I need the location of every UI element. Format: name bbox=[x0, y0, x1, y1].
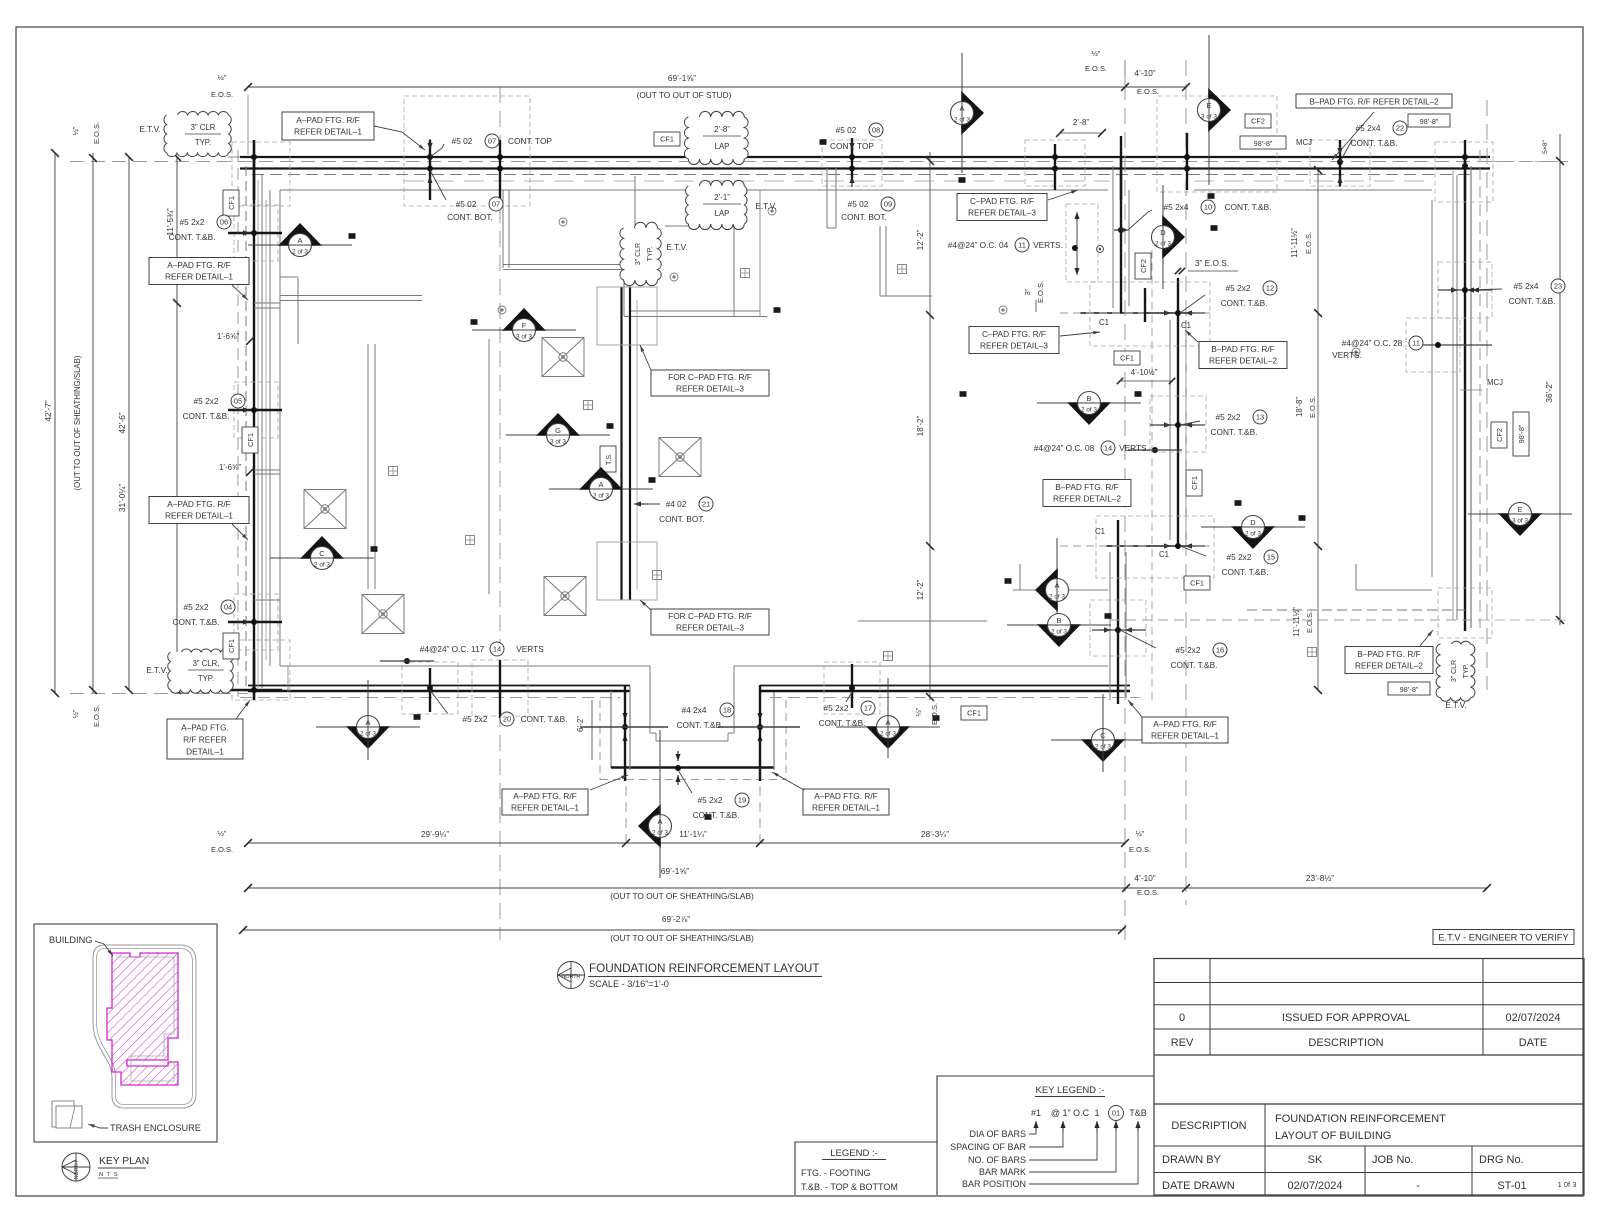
svg-text:19: 19 bbox=[738, 796, 746, 805]
svg-text:A–PAD FTG.: A–PAD FTG. bbox=[181, 723, 229, 733]
svg-text:36’-2”: 36’-2” bbox=[1544, 381, 1554, 402]
footing zone top mid bbox=[1025, 140, 1085, 186]
svg-text:E.T.V.: E.T.V. bbox=[139, 124, 160, 134]
svg-text:F: F bbox=[522, 321, 527, 330]
svg-text:07: 07 bbox=[492, 200, 500, 209]
svg-text:CONT. TOP: CONT. TOP bbox=[508, 136, 552, 146]
legend frame bbox=[795, 1142, 937, 1195]
svg-text:3” CLR,: 3” CLR, bbox=[193, 659, 220, 668]
svg-text:20: 20 bbox=[503, 715, 511, 724]
footing zone bottom 17 bbox=[824, 662, 880, 714]
label A-PAD top-left bbox=[282, 112, 374, 140]
svg-text:D: D bbox=[1250, 518, 1256, 527]
svg-text:½”: ½” bbox=[1136, 829, 1145, 838]
svg-text:CONT. T.&B.: CONT. T.&B. bbox=[1509, 296, 1556, 306]
svg-text:REFER DETAIL–2: REFER DETAIL–2 bbox=[1355, 661, 1423, 671]
svg-text:E.O.S.: E.O.S. bbox=[92, 705, 101, 727]
svg-text:DRG No.: DRG No. bbox=[1479, 1154, 1524, 1166]
cloud 2-1 LAP bbox=[686, 180, 747, 229]
svg-text:CONT. T.&B.: CONT. T.&B. bbox=[1222, 567, 1269, 577]
svg-text:DATE DRAWN: DATE DRAWN bbox=[1162, 1180, 1235, 1192]
98-8 box top bbox=[1240, 136, 1286, 149]
svg-text:3” E.O.S.: 3” E.O.S. bbox=[1195, 258, 1229, 268]
footing zone top 08 bbox=[822, 140, 882, 186]
svg-text:CF1: CF1 bbox=[1190, 579, 1204, 588]
98-8 box right rotated bbox=[1513, 412, 1529, 456]
svg-text:T.&B. - TOP & BOTTOM: T.&B. - TOP & BOTTOM bbox=[801, 1182, 898, 1192]
svg-text:5×8”: 5×8” bbox=[1542, 139, 1549, 154]
svg-text:R/F REFER: R/F REFER bbox=[183, 734, 227, 744]
footing zone spine C1 upper bbox=[1090, 282, 1210, 346]
svg-text:N T S: N T S bbox=[99, 1172, 119, 1178]
dashed across bottom-left bbox=[70, 693, 248, 695]
grid line EOS x=500 bbox=[499, 87, 501, 940]
svg-text:#5 2x2: #5 2x2 bbox=[1216, 412, 1241, 422]
svg-text:02/07/2024: 02/07/2024 bbox=[1505, 1012, 1560, 1024]
svg-text:E.T.V.: E.T.V. bbox=[666, 242, 687, 252]
svg-text:#4 02: #4 02 bbox=[666, 499, 687, 509]
svg-text:#5 2x2: #5 2x2 bbox=[180, 217, 205, 227]
svg-text:A: A bbox=[598, 480, 603, 489]
svg-text:E.O.S.: E.O.S. bbox=[1137, 888, 1159, 897]
section marker A right-wing bbox=[1035, 538, 1069, 642]
svg-text:1’-6⅝”: 1’-6⅝” bbox=[219, 463, 242, 472]
svg-text:CONT. T.&B.: CONT. T.&B. bbox=[819, 718, 866, 728]
key plan building gray inner bbox=[116, 957, 174, 1081]
section marker A top bbox=[951, 53, 985, 173]
svg-text:A–PAD FTG. R/F: A–PAD FTG. R/F bbox=[513, 791, 576, 801]
svg-text:4’-10”: 4’-10” bbox=[1134, 68, 1155, 78]
label A-PAD left 2 bbox=[149, 497, 249, 524]
svg-text:#4@24” O.C. 08: #4@24” O.C. 08 bbox=[1034, 443, 1095, 453]
bottom dim line row2 bbox=[248, 887, 1487, 889]
svg-text:CONT. T.&B.: CONT. T.&B. bbox=[183, 411, 230, 421]
svg-text:CF1: CF1 bbox=[1120, 354, 1134, 363]
bottom dim line row1 bbox=[248, 842, 1125, 844]
footing zone spine C1 lower bbox=[1096, 516, 1214, 578]
svg-text:04: 04 bbox=[224, 603, 232, 612]
svg-text:REFER DETAIL–1: REFER DETAIL–1 bbox=[165, 272, 233, 282]
svg-text:VERTS.: VERTS. bbox=[1332, 350, 1362, 360]
CF1 box spine2 bbox=[1186, 470, 1202, 496]
svg-text:CONT. BOT.: CONT. BOT. bbox=[841, 212, 887, 222]
svg-text:A: A bbox=[1054, 581, 1059, 590]
svg-text:A–PAD FTG. R/F: A–PAD FTG. R/F bbox=[167, 260, 230, 270]
svg-text:23: 23 bbox=[1554, 282, 1562, 291]
svg-text:3 of 3: 3 of 3 bbox=[1512, 518, 1528, 525]
svg-text:#5 2x2: #5 2x2 bbox=[1226, 283, 1251, 293]
svg-text:3 of 3: 3 of 3 bbox=[516, 334, 532, 341]
svg-text:3”: 3” bbox=[1023, 288, 1032, 295]
pad footing F3 bbox=[544, 577, 586, 616]
svg-text:NORTH: NORTH bbox=[74, 1161, 80, 1180]
svg-text:31’-0¼”: 31’-0¼” bbox=[117, 484, 127, 512]
svg-text:T&B: T&B bbox=[1129, 1108, 1147, 1118]
svg-text:½”: ½” bbox=[71, 709, 80, 718]
svg-text:LEGEND :-: LEGEND :- bbox=[830, 1148, 878, 1159]
svg-text:FOUNDATION REINFORCEMENT LAYOU: FOUNDATION REINFORCEMENT LAYOUT bbox=[589, 962, 820, 975]
section marker D lower bbox=[1201, 516, 1305, 550]
svg-text:NO. OF BARS: NO. OF BARS bbox=[968, 1155, 1026, 1165]
svg-text:DETAIL–1: DETAIL–1 bbox=[186, 746, 224, 756]
svg-text:REFER DETAIL–3: REFER DETAIL–3 bbox=[980, 341, 1048, 351]
dashed zone x=1077 bbox=[1066, 204, 1098, 282]
svg-text:CONT. BOT.: CONT. BOT. bbox=[447, 212, 493, 222]
footing zone left 05 bbox=[234, 382, 278, 438]
svg-text:69’-1⅝”: 69’-1⅝” bbox=[668, 73, 696, 83]
svg-text:TYP.: TYP. bbox=[195, 138, 211, 147]
svg-text:B: B bbox=[1086, 394, 1091, 403]
svg-text:E: E bbox=[1206, 101, 1211, 110]
svg-text:CF2: CF2 bbox=[1495, 428, 1504, 442]
svg-text:11’-11½”: 11’-11½” bbox=[1290, 228, 1299, 258]
left dim line 11-5 bbox=[176, 157, 178, 690]
svg-text:07: 07 bbox=[488, 137, 496, 146]
bolt symbol bbox=[1352, 348, 1360, 356]
svg-text:98’-8”: 98’-8” bbox=[1517, 424, 1526, 443]
svg-text:½”: ½” bbox=[914, 707, 923, 716]
svg-text:11’-11½”: 11’-11½” bbox=[1292, 607, 1301, 637]
svg-text:2 of 3: 2 of 3 bbox=[593, 493, 609, 500]
CF1 box left2 bbox=[242, 427, 258, 453]
anchor symbol bbox=[1308, 648, 1317, 657]
anchor symbol bbox=[741, 269, 750, 278]
svg-text:42’-6”: 42’-6” bbox=[117, 412, 127, 433]
svg-text:2 of 3: 2 of 3 bbox=[652, 830, 668, 837]
svg-text:#4@24” O.C. 28: #4@24” O.C. 28 bbox=[1342, 338, 1403, 348]
svg-text:CONT. T.&B.: CONT. T.&B. bbox=[169, 232, 216, 242]
footing zone top 22 bbox=[1310, 140, 1370, 186]
svg-text:11: 11 bbox=[1018, 241, 1026, 250]
CF2 box right bbox=[1491, 422, 1507, 448]
grid line x=1125 bbox=[1124, 60, 1126, 940]
interior long strips bbox=[367, 344, 369, 589]
footing zone corner BL bbox=[232, 640, 290, 700]
section marker E top bbox=[1198, 35, 1232, 185]
svg-text:CONT. T.&B.: CONT. T.&B. bbox=[1211, 427, 1258, 437]
svg-text:C–PAD FTG. R/F: C–PAD FTG. R/F bbox=[970, 196, 1034, 206]
footing zone corner TL bbox=[232, 142, 290, 206]
svg-text:E.O.S.: E.O.S. bbox=[1036, 281, 1045, 303]
svg-text:1’-6⅝”: 1’-6⅝” bbox=[217, 332, 240, 341]
footing zone top-left corner bbox=[404, 96, 530, 206]
label B-PAD left bbox=[1043, 480, 1131, 507]
svg-text:18: 18 bbox=[723, 706, 731, 715]
key plan site outline bbox=[93, 945, 196, 1108]
footing zone left 06 bbox=[234, 205, 278, 261]
svg-text:REFER DETAIL–2: REFER DETAIL–2 bbox=[1053, 494, 1121, 504]
cloud 3in CLR right bbox=[1436, 641, 1475, 701]
bolt symbol bbox=[559, 218, 567, 226]
top exterior wall bbox=[240, 156, 1490, 158]
label A-PAD notch right bbox=[803, 789, 889, 815]
svg-text:E.O.S.: E.O.S. bbox=[1308, 396, 1317, 418]
svg-text:16: 16 bbox=[1216, 646, 1224, 655]
CF1 box spine3 bbox=[1184, 576, 1210, 590]
svg-text:A–PAD FTG. R/F: A–PAD FTG. R/F bbox=[296, 115, 359, 125]
svg-text:CONT. T.&B.: CONT. T.&B. bbox=[1221, 298, 1268, 308]
svg-text:22: 22 bbox=[1396, 124, 1404, 133]
svg-text:#4@24” O.C. 117: #4@24” O.C. 117 bbox=[420, 644, 485, 654]
anchor symbol bbox=[584, 401, 593, 410]
svg-text:KEY PLAN: KEY PLAN bbox=[99, 1156, 149, 1167]
svg-text:1: 1 bbox=[1094, 1108, 1099, 1118]
svg-text:E.O.S.: E.O.S. bbox=[92, 122, 101, 144]
CF1 box left1 bbox=[223, 190, 239, 216]
footing zone spine 16 bbox=[1090, 600, 1146, 656]
svg-text:CONT. TOP: CONT. TOP bbox=[830, 141, 874, 151]
svg-text:E.O.S.: E.O.S. bbox=[1137, 87, 1159, 96]
section marker G bbox=[506, 413, 610, 447]
svg-text:CONT. T.&B.: CONT. T.&B. bbox=[1171, 660, 1218, 670]
key legend leader elbows bbox=[1029, 1131, 1036, 1134]
label C-PAD 2 bbox=[969, 327, 1059, 354]
svg-text:CF2: CF2 bbox=[1251, 117, 1265, 126]
svg-text:REFER DETAIL–1: REFER DETAIL–1 bbox=[1151, 730, 1219, 740]
svg-text:E.O.S.: E.O.S. bbox=[211, 845, 233, 854]
right dim line 36-2 bbox=[1559, 134, 1561, 625]
right wing bottom dashed boundary bbox=[1110, 619, 1480, 621]
title block bottom section lines bbox=[1154, 1103, 1584, 1105]
svg-text:E.O.S.: E.O.S. bbox=[930, 703, 939, 725]
svg-text:E.O.S.: E.O.S. bbox=[1085, 64, 1107, 73]
left exterior wall bbox=[253, 157, 255, 690]
svg-text:TRASH ENCLOSURE: TRASH ENCLOSURE bbox=[110, 1123, 201, 1133]
vertical dim arrows x=1077 bbox=[1076, 212, 1078, 275]
section marker B right-wing bbox=[1007, 614, 1111, 648]
label C-PAD 1 bbox=[957, 194, 1047, 221]
svg-text:DESCRIPTION: DESCRIPTION bbox=[1308, 1037, 1383, 1049]
T.S. box bbox=[600, 446, 616, 472]
footing zone right bottom bbox=[1438, 588, 1492, 638]
svg-text:#5 2x2: #5 2x2 bbox=[1227, 552, 1252, 562]
svg-text:C1: C1 bbox=[1159, 550, 1169, 559]
pad footing F5 bbox=[362, 595, 404, 634]
cloud 2-8 LAP bbox=[684, 111, 748, 164]
svg-text:C–PAD FTG. R/F: C–PAD FTG. R/F bbox=[982, 329, 1046, 339]
footing zone right 11 bbox=[1406, 318, 1460, 372]
section marker B spine bbox=[1037, 392, 1141, 426]
C1 grid dashed lines bbox=[1060, 312, 1210, 314]
key plan frame bbox=[34, 924, 217, 1142]
svg-text:6’-2”: 6’-2” bbox=[576, 716, 585, 732]
svg-text:½”: ½” bbox=[71, 126, 80, 135]
interior partitions right wing bbox=[1013, 589, 1108, 591]
98-8 box top2 bbox=[1408, 114, 1450, 127]
anchor symbol bbox=[884, 652, 893, 661]
svg-text:2 of 3: 2 of 3 bbox=[954, 117, 970, 124]
svg-text:½”: ½” bbox=[1092, 49, 1101, 58]
svg-text:½”: ½” bbox=[218, 73, 227, 82]
svg-text:MCJ: MCJ bbox=[1487, 378, 1503, 387]
section marker C left bbox=[270, 536, 374, 570]
svg-text:SK: SK bbox=[1308, 1154, 1323, 1166]
svg-text:4’-10”: 4’-10” bbox=[1134, 873, 1155, 883]
bolt symbol bbox=[670, 273, 678, 281]
svg-text:A: A bbox=[657, 817, 662, 826]
svg-text:REFER DETAIL–1: REFER DETAIL–1 bbox=[812, 802, 880, 812]
svg-text:#4@24” O.C. 04: #4@24” O.C. 04 bbox=[948, 240, 1009, 250]
section marker F bbox=[472, 308, 576, 342]
svg-text:#5 02: #5 02 bbox=[836, 125, 857, 135]
svg-text:REFER DETAIL–1: REFER DETAIL–1 bbox=[294, 127, 362, 137]
svg-text:BAR POSITION: BAR POSITION bbox=[962, 1179, 1026, 1189]
rebar crosses bottom wall bbox=[429, 668, 431, 712]
svg-text:#5 2x4: #5 2x4 bbox=[1164, 202, 1189, 212]
cloud 3in CLR top-left bbox=[164, 112, 231, 157]
svg-text:2’-1”: 2’-1” bbox=[714, 193, 730, 202]
svg-text:E.O.S.: E.O.S. bbox=[1129, 845, 1151, 854]
svg-text:3” CLR: 3” CLR bbox=[191, 123, 216, 132]
svg-text:REFER DETAIL–1: REFER DETAIL–1 bbox=[511, 802, 579, 812]
svg-text:1 0f 3: 1 0f 3 bbox=[1558, 1180, 1577, 1189]
svg-text:B–PAD FTG. R/F: B–PAD FTG. R/F bbox=[1055, 482, 1118, 492]
svg-text:FOUNDATION REINFORCEMENT: FOUNDATION REINFORCEMENT bbox=[1275, 1113, 1446, 1125]
svg-text:#5 2x2: #5 2x2 bbox=[698, 795, 723, 805]
svg-text:CF1: CF1 bbox=[660, 135, 674, 144]
svg-text:3 of 3: 3 of 3 bbox=[1201, 114, 1217, 121]
svg-text:2 of 3: 2 of 3 bbox=[314, 562, 330, 569]
bolt symbol bbox=[768, 207, 776, 215]
svg-text:2 of 3: 2 of 3 bbox=[1245, 531, 1261, 538]
key plan north symbol bbox=[62, 1153, 90, 1181]
right side EOS dims bbox=[1317, 170, 1319, 690]
svg-text:02/07/2024: 02/07/2024 bbox=[1287, 1180, 1342, 1192]
section marker D spine bbox=[1152, 185, 1186, 289]
section marker A bottom-left bbox=[316, 716, 420, 750]
central trench beam bbox=[620, 287, 622, 600]
svg-text:B: B bbox=[1056, 616, 1061, 625]
svg-text:#5 2x2: #5 2x2 bbox=[184, 602, 209, 612]
svg-text:CONT. T.&B.: CONT. T.&B. bbox=[1351, 138, 1398, 148]
footing zone corner TR bbox=[1435, 142, 1493, 202]
section marker A left top bbox=[248, 223, 352, 257]
section marker C bottom bbox=[1051, 729, 1155, 763]
label B-PAD top right (single line) bbox=[1296, 94, 1452, 108]
section marker A bottom-mid bbox=[836, 716, 940, 750]
svg-text:LAP: LAP bbox=[715, 142, 730, 151]
svg-text:CONT. T.&B.: CONT. T.&B. bbox=[173, 617, 220, 627]
label A-PAD left 1 bbox=[149, 258, 249, 285]
svg-text:13: 13 bbox=[1256, 413, 1264, 422]
left wall jog ticks bbox=[246, 337, 254, 345]
section line vertical notch bbox=[659, 730, 661, 814]
svg-text:REFER DETAIL–3: REFER DETAIL–3 bbox=[676, 622, 744, 632]
svg-text:DIA OF BARS: DIA OF BARS bbox=[969, 1129, 1026, 1139]
anchor symbol bbox=[389, 467, 398, 476]
svg-text:2 of 3: 2 of 3 bbox=[1049, 594, 1065, 601]
svg-text:2’-8”: 2’-8” bbox=[714, 125, 730, 134]
key legend frame bbox=[937, 1076, 1154, 1195]
svg-text:3 of 3: 3 of 3 bbox=[550, 439, 566, 446]
svg-text:½”: ½” bbox=[218, 829, 227, 838]
bottom wall right of notch bbox=[760, 685, 1130, 687]
rebar crosses central spine bbox=[1150, 312, 1205, 314]
svg-text:E.T.V.: E.T.V. bbox=[146, 665, 167, 675]
svg-text:TYP.: TYP. bbox=[1463, 664, 1470, 679]
svg-text:CF2: CF2 bbox=[1139, 259, 1148, 273]
svg-text:FOR C–PAD FTG. R/F: FOR C–PAD FTG. R/F bbox=[668, 372, 752, 382]
section marker A centre bbox=[549, 467, 653, 501]
pad footing F4 bbox=[304, 490, 346, 529]
svg-text:29’-9¼”: 29’-9¼” bbox=[421, 829, 449, 839]
svg-text:#5 2x4: #5 2x4 bbox=[1514, 281, 1539, 291]
svg-text:17: 17 bbox=[864, 704, 872, 713]
svg-text:#5 2x2: #5 2x2 bbox=[463, 714, 488, 724]
svg-text:CF1: CF1 bbox=[1190, 476, 1199, 490]
svg-text:#5 02: #5 02 bbox=[452, 136, 473, 146]
bottom dim line row3 bbox=[243, 929, 1122, 931]
svg-text:REV: REV bbox=[1171, 1037, 1194, 1049]
bottom notch walls bbox=[610, 691, 612, 768]
footing zone spine 13 bbox=[1150, 396, 1206, 452]
corner rebar bars bbox=[253, 140, 256, 200]
grid line x=1186 bbox=[1185, 60, 1187, 905]
wall inner strips bbox=[265, 200, 267, 660]
svg-text:18’-8”: 18’-8” bbox=[1295, 397, 1304, 417]
circle symbol near 04 verts bbox=[1097, 246, 1104, 253]
CF1 box top bbox=[654, 132, 680, 146]
svg-text:E.O.S.: E.O.S. bbox=[211, 90, 233, 99]
footing zone bottom 2 bbox=[472, 660, 528, 716]
svg-text:06: 06 bbox=[220, 218, 228, 227]
anchor symbol bbox=[466, 536, 475, 545]
svg-text:VERTS.: VERTS. bbox=[1033, 240, 1063, 250]
right wing east wall bbox=[1464, 157, 1466, 631]
central spine wall bbox=[1120, 157, 1122, 313]
title block frame bbox=[1154, 959, 1584, 1196]
pad footing F2 bbox=[659, 438, 701, 477]
svg-text:69’-1⅝”: 69’-1⅝” bbox=[661, 866, 689, 876]
svg-text:#5 2x2: #5 2x2 bbox=[824, 703, 849, 713]
anchor symbol bbox=[653, 571, 662, 580]
svg-text:REFER DETAIL–3: REFER DETAIL–3 bbox=[676, 383, 744, 393]
svg-text:CONT. T.&B.: CONT. T.&B. bbox=[677, 720, 724, 730]
svg-text:98’-8”: 98’-8” bbox=[1254, 139, 1273, 148]
svg-text:C1: C1 bbox=[1099, 318, 1109, 327]
svg-text:2 of 3: 2 of 3 bbox=[292, 249, 308, 256]
svg-text:E.O.S.: E.O.S. bbox=[1304, 232, 1313, 254]
footing zone left 04 bbox=[234, 594, 278, 650]
svg-text:LAP: LAP bbox=[715, 209, 730, 218]
svg-text:REFER DETAIL–1: REFER DETAIL–1 bbox=[165, 511, 233, 521]
svg-text:#5 02: #5 02 bbox=[456, 199, 477, 209]
label B-PAD right bbox=[1345, 647, 1433, 674]
label B-PAD mid bbox=[1199, 342, 1287, 369]
svg-text:(OUT TO OUT OF SHEATHING/S: (OUT TO OUT OF SHEATHING/SLAB) bbox=[610, 933, 754, 943]
svg-text:KEY LEGEND :-: KEY LEGEND :- bbox=[1036, 1085, 1105, 1096]
svg-text:E.O.S.: E.O.S. bbox=[1305, 611, 1314, 633]
svg-text:12’-2”: 12’-2” bbox=[916, 229, 925, 250]
CF1 box spine1 bbox=[1114, 351, 1140, 365]
label A-PAD notch left bbox=[502, 789, 588, 815]
beam dashed boxes bbox=[597, 287, 657, 345]
cloud 3in CLR bottom-left bbox=[168, 649, 233, 693]
svg-text:NORTH: NORTH bbox=[562, 974, 581, 980]
svg-text:28’-3¼”: 28’-3¼” bbox=[921, 829, 949, 839]
svg-text:BUILDING: BUILDING bbox=[49, 935, 92, 945]
svg-text:JOB No.: JOB No. bbox=[1372, 1154, 1414, 1166]
top dimension line 69ft bbox=[248, 86, 1186, 88]
anchor symbol bbox=[898, 265, 907, 274]
CF2 box spine bbox=[1135, 253, 1151, 279]
svg-text:REFER DETAIL–2: REFER DETAIL–2 bbox=[1209, 356, 1277, 366]
svg-text:08: 08 bbox=[872, 126, 880, 135]
svg-text:12: 12 bbox=[1266, 284, 1274, 293]
svg-text:3” CLR: 3” CLR bbox=[635, 243, 642, 265]
svg-text:(OUT TO OUT OF SHEATHING/S: (OUT TO OUT OF SHEATHING/SLAB) bbox=[73, 355, 82, 490]
svg-text:E: E bbox=[1517, 505, 1522, 514]
